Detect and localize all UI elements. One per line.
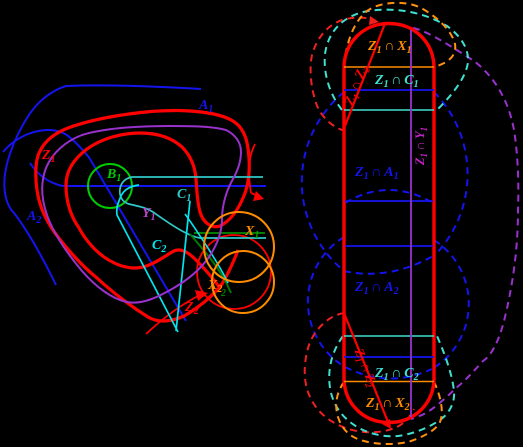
blue dashed lower oval: top crest <box>345 190 433 203</box>
svg-text:Z1 ∩ Y1: Z1 ∩ Y1 <box>413 127 429 166</box>
curve A1 (blue: top line + left curl + lower diagonal tail) <box>4 85 201 285</box>
curve C2b (cyan steep diagonal) <box>176 201 190 331</box>
red dashed top-left loop (Z2 continuation) <box>311 18 371 131</box>
svg-text:Z1 ∩ A1: Z1 ∩ A1 <box>354 165 399 182</box>
arrow of Z2 upper <box>251 193 258 196</box>
capsule Z1 (thick red stadium) <box>344 24 434 423</box>
svg-text:Z1 ∩ A2: Z1 ∩ A2 <box>354 280 399 297</box>
curve C1 (teal: horizontal y=177 + hook + descent to lower horizontal) <box>120 177 266 238</box>
blue dashed upper oval: left arc <box>302 92 344 271</box>
orange dashed top loop (X1 continuation) <box>344 3 455 67</box>
svg-text:Z1 ∩ X2: Z1 ∩ X2 <box>365 396 410 413</box>
blue line y=201 <box>345 200 433 202</box>
teal dashed bottom loop (C2 continuation) <box>329 336 454 436</box>
curve C2 (cyan: inner hook + long diagonal tail) <box>117 185 178 332</box>
circle B1 (green) <box>88 164 132 208</box>
cyan line y=110 <box>344 109 434 111</box>
red dashed arrow top <box>369 16 379 25</box>
blue line y=246 <box>345 245 433 247</box>
curve B2 (dark green: horizontal y=233 + diagonal) <box>194 232 265 234</box>
blue dashed upper oval: bottom crest <box>344 255 435 274</box>
circle X1 (orange) <box>204 212 274 282</box>
cyan short diagonal near B2 <box>185 214 228 283</box>
curve Z1 outer loop (thick red) <box>36 111 249 322</box>
curve A2 (blue: left crest + steep dive through B1 to lower tail) <box>3 130 186 321</box>
curve Z2 upper piece (thin red, ends with bent arrow) <box>249 144 255 193</box>
svg-text:Z1 ∩ C2: Z1 ∩ C2 <box>374 366 419 383</box>
red diagonal top (Z2 inside capsule) <box>345 24 385 127</box>
circle X2 (orange) <box>212 251 274 313</box>
teal dashed top loop (C1 continuation) <box>325 10 468 110</box>
curve Z2 circle (thin red) <box>197 235 271 309</box>
blue dashed upper oval: right arc <box>434 92 468 255</box>
curve A3 (blue horizontal line y=186 with left descent) <box>30 163 266 186</box>
purple dashed giant ellipse (Y1 outer loop) <box>411 28 518 419</box>
blue dashed lower oval: left arc <box>308 237 345 367</box>
svg-text:Z1 ∩ X1: Z1 ∩ X1 <box>367 39 412 56</box>
blue line y=357 <box>344 356 434 358</box>
blue dashed lower oval: bottom crest <box>345 367 432 379</box>
purple vertical line (Y1 crossing) <box>410 30 412 417</box>
orange line y=67 <box>344 66 434 68</box>
blue dashed lower oval: right arc <box>432 240 469 369</box>
cyan line y=336 <box>344 335 434 337</box>
svg-text:2: 2 <box>220 288 226 299</box>
orange dashed bottom loop (X2 continuation) <box>336 382 442 444</box>
red diagonal bottom (Z2 inside capsule) + arrow <box>344 313 388 422</box>
blue line y=90 <box>344 89 434 91</box>
curve Z2 lower tail with arrow <box>146 295 200 334</box>
orange line y=381.5 <box>344 381 434 383</box>
red dashed bottom-left loop <box>305 313 414 432</box>
curve Y1 (violet closed loop) <box>42 126 241 303</box>
svg-text:Z1 ∩ C1: Z1 ∩ C1 <box>374 73 419 90</box>
